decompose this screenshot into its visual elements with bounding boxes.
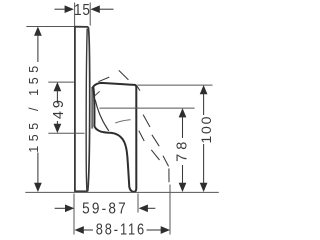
svg-text:59-87: 59-87	[82, 201, 128, 218]
dim 49 line upper	[56, 90, 58, 104]
extension line 49 bottom	[48, 132, 84, 134]
escutcheon plate bottom edge	[74, 190, 88, 192]
dashed open-position front edge dash 3	[152, 135, 159, 146]
extension line 15 right	[89, 3, 91, 26]
extension line bottom (handle tip level)	[25, 191, 219, 193]
dashed open-position top edge	[119, 70, 129, 79]
dim 59-87 arrow left	[65, 204, 74, 212]
extension line wall vertical bottom	[73, 194, 75, 235]
extension line 59-87 right vertical	[137, 194, 139, 213]
dim 78 line lower	[182, 165, 184, 185]
dim 88-116 line right	[147, 229, 162, 231]
extension line 100 top (handle top level)	[137, 84, 212, 86]
extension line 15 left	[74, 3, 76, 27]
svg-text:15: 15	[74, 2, 91, 19]
dim 15 line right tail	[99, 8, 113, 10]
extension line 49 top	[48, 81, 74, 83]
escutcheon plate left edge (wall side)	[74, 27, 76, 192]
dim 88-116 line left	[83, 229, 93, 231]
extension line top of plate (155 dim)	[26, 26, 74, 28]
dim 78 arrow top	[179, 108, 187, 117]
dashed open-position front edge dash 4	[163, 156, 169, 167]
dim 49 arrow top	[54, 82, 62, 91]
handle body outline	[93, 83, 136, 192]
dashed open-position back edge dash 1	[139, 131, 144, 141]
dim 15 arrow right	[91, 5, 100, 13]
dim 78 arrow bottom	[179, 183, 187, 192]
svg-text:78: 78	[174, 138, 190, 162]
dim 59-87 arrow right	[139, 204, 148, 212]
svg-text:49: 49	[51, 97, 67, 119]
dim 49 line lower	[56, 121, 58, 126]
dim 88-116 arrow right	[161, 226, 170, 234]
svg-text:88-116: 88-116	[96, 221, 146, 239]
dim 155/155 arrow bottom	[34, 183, 42, 192]
svg-text:155 / 155: 155 / 155	[27, 61, 41, 153]
dim 100 arrow bottom	[200, 183, 208, 192]
dashed open-position front edge dash 2	[143, 115, 150, 127]
dim 100 line lower	[203, 144, 205, 185]
handle base crease	[95, 91, 100, 96]
dashed open-position front edge dash 1	[137, 86, 140, 91]
dim 15 arrow left	[65, 5, 74, 13]
dashed open-position back edge dash 2	[151, 150, 159, 160]
dim 59-87 right tail	[147, 207, 155, 209]
escutcheon plate front outer edge	[88, 27, 90, 191]
extension line 78 top (lever seam level)	[100, 107, 195, 109]
dim 49 arrow bottom	[54, 124, 62, 133]
dashed open-position tip	[168, 169, 170, 183]
escutcheon plate front inner line	[86, 29, 87, 191]
dim 155/155 line upper	[37, 34, 39, 62]
handle sleeve line behind base	[91, 87, 93, 129]
handle lever seam	[95, 100, 109, 131]
escutcheon plate top edge	[74, 26, 88, 28]
dim 155/155 arrow top	[34, 27, 42, 36]
dim 59-87 left tail	[55, 207, 66, 209]
svg-text:100: 100	[198, 115, 214, 144]
dashed open-position top slant	[98, 77, 109, 82]
dim 100 arrow top	[200, 85, 208, 94]
dim 88-116 arrow left	[75, 226, 84, 234]
dim 155/155 line lower	[37, 153, 39, 185]
handle smile detail line	[115, 120, 130, 123]
extension line 88-116 right vertical	[169, 185, 171, 235]
dim 15 line left tail	[55, 8, 66, 10]
dim 100 line upper	[203, 93, 205, 116]
dim 78 line upper	[182, 116, 184, 139]
